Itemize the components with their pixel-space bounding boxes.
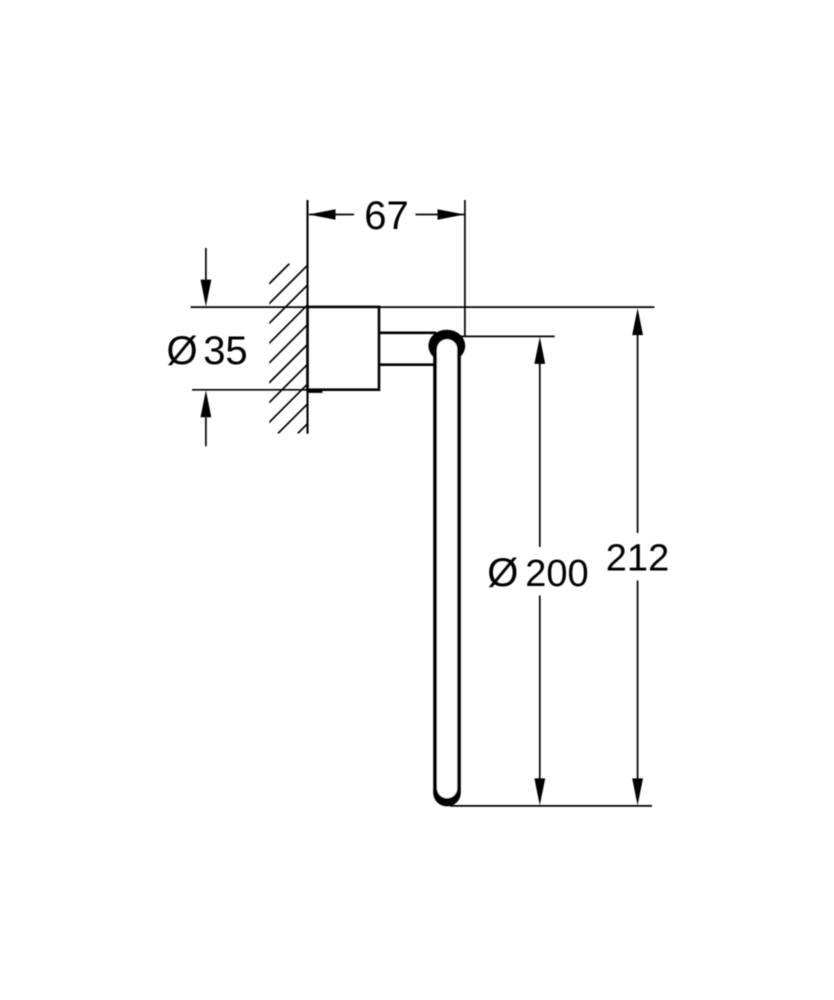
extension line bottom (D200 / 212) <box>450 805 652 807</box>
wall hatching <box>120 264 468 434</box>
wall line <box>306 200 308 434</box>
ring tube inner (white slot) <box>437 339 457 798</box>
svg-text:Ø: Ø <box>487 551 518 595</box>
svg-text:67: 67 <box>364 194 409 238</box>
arrow 212 bottom <box>632 778 643 805</box>
svg-text:Ø: Ø <box>167 329 198 373</box>
ring cross-section disc <box>428 330 465 362</box>
extension line 67 right <box>464 200 466 336</box>
svg-text:35: 35 <box>203 329 248 373</box>
arrow D35 bottom <box>201 390 212 417</box>
extension line top (D35 top / 212 top) <box>191 306 655 308</box>
svg-text:212: 212 <box>606 537 669 579</box>
leader line D35 top <box>205 248 207 281</box>
post bottom line <box>379 363 435 366</box>
dimension line 67 <box>309 214 464 216</box>
extension line D200 top <box>461 335 555 337</box>
arrow D35 top <box>201 280 212 307</box>
svg-text:200: 200 <box>525 553 588 595</box>
dimension line 212 <box>637 335 639 780</box>
post top line <box>379 331 436 334</box>
rosette (wall flange) <box>308 307 380 390</box>
rosette foot chamfer <box>309 390 323 393</box>
arrow 212 top <box>632 308 643 335</box>
dimension line D200 <box>539 363 541 780</box>
arrow D200 bottom <box>534 778 545 805</box>
ring tube (outer pill, black) <box>433 333 461 806</box>
arrow 67 left <box>309 209 336 220</box>
leader line D35 bottom <box>205 418 207 447</box>
extension line D35 bottom <box>192 389 308 391</box>
arrow D200 top <box>534 337 545 364</box>
arrow 67 right <box>438 209 465 220</box>
